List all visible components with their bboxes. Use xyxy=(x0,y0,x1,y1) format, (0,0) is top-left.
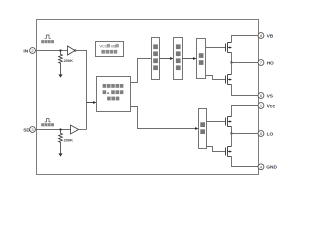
wire LO to pin 5 xyxy=(232,133,259,135)
pin 4 circle GND xyxy=(258,164,264,170)
wire M4 drain to LO node xyxy=(231,134,233,147)
wire with arrow: pulse filter to driver xyxy=(183,57,197,60)
pin 7 circle HO xyxy=(258,60,264,66)
wire M2 source to VS rail xyxy=(232,85,259,96)
label 间电路 xyxy=(107,97,119,101)
svg-text:HO: HO xyxy=(267,60,274,66)
svg-text:200K: 200K xyxy=(64,137,73,142)
wire driver to M3 gate xyxy=(207,121,226,123)
svg-text:200K: 200K xyxy=(64,58,73,63)
wire M3 source to LO node xyxy=(231,127,233,134)
body arrow M1 xyxy=(228,46,231,48)
wire A1 output to logic xyxy=(75,51,87,130)
node: IN wire / resistor junction xyxy=(59,49,61,51)
svg-text:VS: VS xyxy=(267,93,274,99)
wire Vcc rail xyxy=(232,106,259,117)
buffer amp A1 (IN) xyxy=(68,46,76,55)
transistor M1 (high-side upper MOSFET) xyxy=(226,43,232,53)
node LO junction xyxy=(230,132,232,134)
transistor M4 (low-side lower MOSFET) xyxy=(226,147,232,157)
wire driver to M1 gate xyxy=(206,47,226,49)
label VCC和VB侧 xyxy=(99,43,118,48)
label 驱动 (vertical, high side) xyxy=(199,53,204,65)
label 路、死区时 xyxy=(103,90,124,94)
buffer amp A2 (SD) xyxy=(71,125,79,134)
svg-text:Vcc: Vcc xyxy=(267,103,276,109)
pin 5 circle LO xyxy=(258,131,264,137)
label 欠压保护 xyxy=(101,50,117,54)
svg-text:VB: VB xyxy=(267,33,274,39)
transistor M3 (low-side upper MOSFET) xyxy=(226,117,232,127)
undervoltage protection box: VCC和VB侧 欠压保护 xyxy=(96,42,124,57)
wire logic box to low-side driver xyxy=(131,107,196,129)
pin 1 circle Vcc xyxy=(258,103,264,109)
node HO junction xyxy=(230,61,232,63)
pin 8 circle VB xyxy=(258,33,264,39)
wire SD input xyxy=(35,129,70,131)
pulse filter box 脉冲滤波 xyxy=(174,38,183,80)
driver box 驱动 (low side) xyxy=(199,109,207,149)
body arrow M4 xyxy=(228,150,231,152)
resistor R2 200K xyxy=(59,130,63,154)
driver box 驱动 (high side) xyxy=(197,39,206,79)
wire IN input xyxy=(35,50,67,52)
wire HO to pin 7 xyxy=(232,62,259,64)
transistor M2 (high-side lower MOSFET) xyxy=(226,75,232,85)
wire M4 source to GND rail xyxy=(232,157,259,167)
label 电平位移 (vertical) xyxy=(153,44,158,70)
arrow into low-side driver xyxy=(195,127,198,130)
wire M2 drain to HO node xyxy=(231,63,233,75)
ground arrow (R2) xyxy=(58,153,62,156)
pin 6 circle VS xyxy=(258,93,264,99)
wire VB rail xyxy=(232,36,259,43)
svg-text:IN: IN xyxy=(23,48,28,54)
IC outline box U1 xyxy=(37,20,259,175)
wire A2 output joining logic input line xyxy=(79,129,87,131)
wire logic box to level shifter xyxy=(131,59,152,83)
wire arrow into logic box xyxy=(87,101,97,104)
pulse waveform icon (SD) xyxy=(45,119,51,122)
svg-text:VCC: VCC xyxy=(99,43,108,48)
wire driver low output to M2 gate (stepped) xyxy=(206,76,226,80)
pin 2 circle xyxy=(30,48,36,54)
node: SD wire / resistor junction xyxy=(59,128,61,130)
label 脉冲滤波 (vertical) xyxy=(176,44,181,70)
label 驱动 (vertical, low side) xyxy=(200,122,205,134)
node at A1 output xyxy=(74,49,76,51)
svg-text:GND: GND xyxy=(266,165,277,171)
label 关断输入 (SD) xyxy=(41,123,54,126)
logic control / dead-time box xyxy=(97,77,131,112)
wire with arrow: level shift to pulse filter xyxy=(160,57,174,60)
pin 3 circle xyxy=(30,127,36,133)
body arrow M3 xyxy=(228,120,231,122)
ground arrow (R1) xyxy=(58,74,62,77)
resistor R1 200K xyxy=(59,51,63,75)
wire M1 source to HO node xyxy=(231,53,233,63)
label 逻辑输入 (IN) xyxy=(41,40,54,43)
wire driver low output to M4 gate (stepped) xyxy=(207,147,226,152)
label 逻辑控制电 xyxy=(103,84,124,88)
pulse waveform icon (IN) xyxy=(45,35,51,38)
svg-text:LO: LO xyxy=(267,131,274,137)
level shift box 电平位移 xyxy=(152,38,160,80)
svg-text:VB: VB xyxy=(111,43,117,48)
body arrow M2 xyxy=(228,78,231,80)
